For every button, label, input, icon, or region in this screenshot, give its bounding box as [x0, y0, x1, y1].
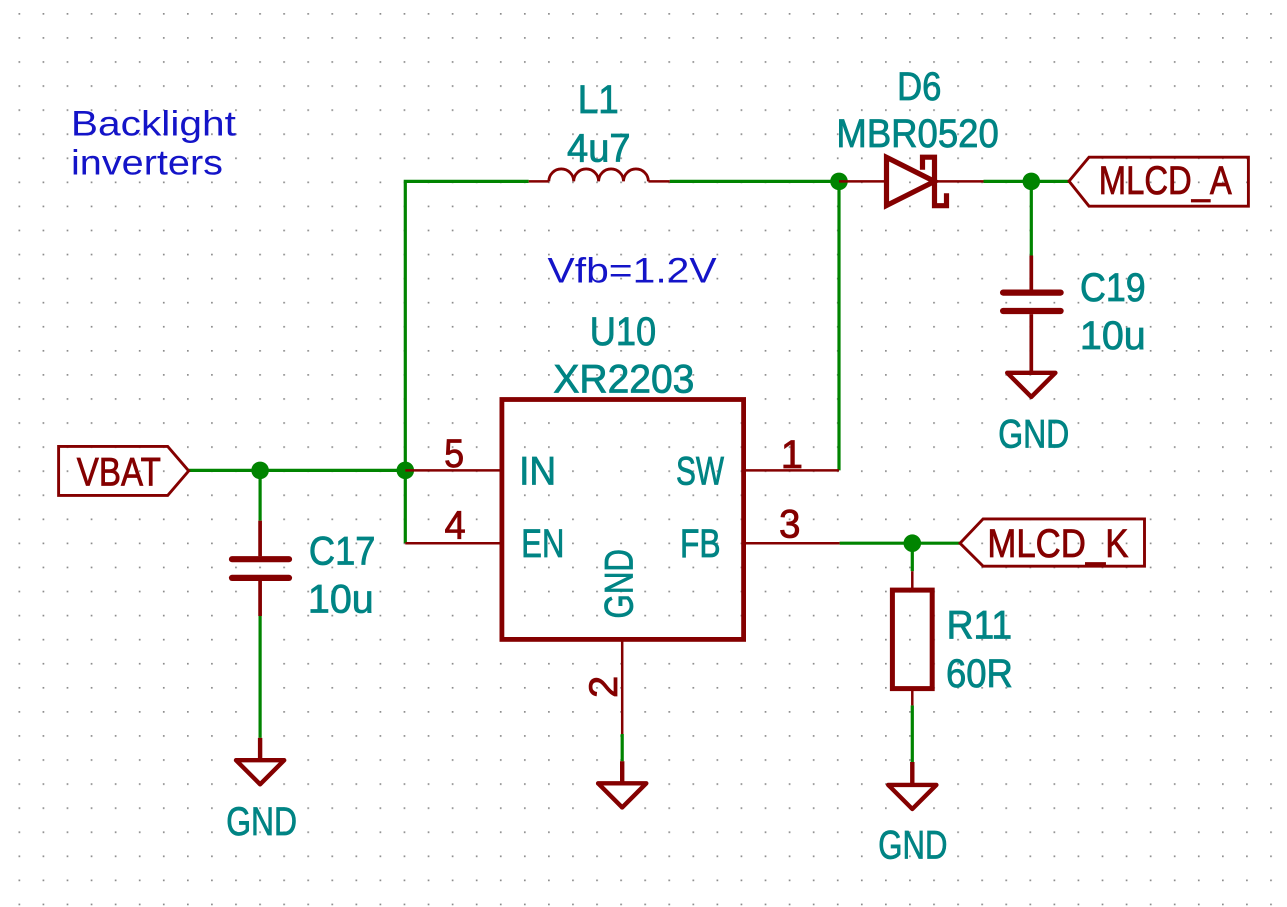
svg-text:60R: 60R [946, 652, 1013, 696]
svg-text:Vfb=1.2V: Vfb=1.2V [548, 252, 718, 291]
svg-text:L1: L1 [578, 78, 619, 122]
svg-text:FB: FB [680, 522, 721, 566]
svg-text:EN: EN [521, 522, 564, 566]
svg-text:MLCD_A: MLCD_A [1099, 159, 1232, 203]
svg-text:XR2203: XR2203 [553, 357, 694, 401]
svg-text:5: 5 [444, 432, 464, 476]
svg-text:D6: D6 [897, 65, 941, 109]
svg-text:IN: IN [519, 450, 556, 494]
svg-text:VBAT: VBAT [77, 451, 161, 495]
svg-text:inverters: inverters [71, 143, 223, 182]
svg-text:10u: 10u [308, 577, 374, 621]
svg-text:SW: SW [676, 450, 724, 494]
svg-text:GND: GND [598, 549, 642, 619]
svg-text:GND: GND [226, 800, 297, 844]
svg-text:4: 4 [445, 504, 466, 548]
svg-text:10u: 10u [1080, 314, 1146, 358]
svg-text:GND: GND [998, 412, 1069, 456]
svg-text:MBR0520: MBR0520 [836, 112, 998, 156]
svg-text:C19: C19 [1080, 266, 1146, 310]
svg-text:GND: GND [878, 823, 947, 867]
svg-text:2: 2 [582, 676, 626, 698]
svg-text:1: 1 [781, 433, 803, 477]
svg-text:R11: R11 [947, 603, 1013, 647]
svg-text:C17: C17 [309, 530, 376, 574]
svg-text:4u7: 4u7 [567, 127, 631, 171]
svg-text:MLCD_K: MLCD_K [987, 522, 1128, 566]
svg-text:U10: U10 [590, 310, 656, 354]
svg-text:3: 3 [779, 503, 801, 547]
svg-text:Backlight: Backlight [71, 104, 236, 143]
